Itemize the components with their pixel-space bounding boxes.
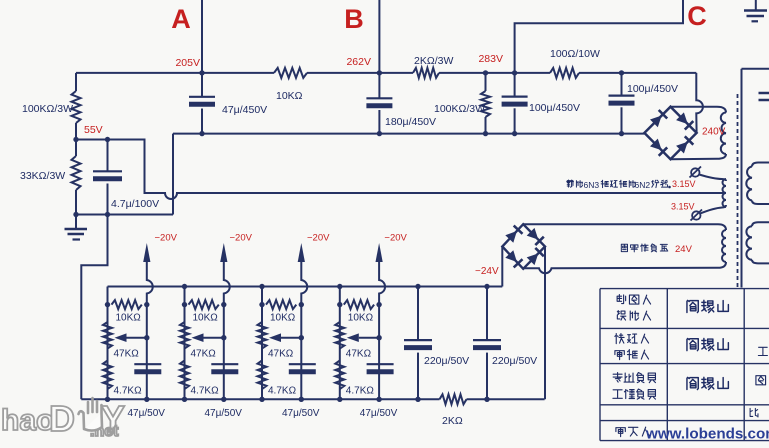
capacitor C4 100μ/450V bbox=[619, 70, 624, 75]
watermark haoDIY logo bbox=[1, 398, 125, 440]
svg-text:−20V: −20V bbox=[384, 233, 407, 244]
svg-text:4.7KΩ: 4.7KΩ bbox=[268, 386, 297, 397]
bias section 1 resistor 4.7KΩ bbox=[103, 361, 112, 390]
table row2 label jiaoduiren bbox=[615, 334, 624, 344]
bias section 3 -20V arrow bbox=[298, 243, 305, 262]
svg-text:100KΩ/3W: 100KΩ/3W bbox=[434, 103, 485, 115]
svg-text:205V: 205V bbox=[175, 57, 200, 69]
transformer 3.15V winding lower bbox=[723, 193, 727, 207]
svg-text:B: B bbox=[344, 4, 364, 34]
svg-text:47μ/450V: 47μ/450V bbox=[222, 104, 267, 116]
svg-text:47μ/50V: 47μ/50V bbox=[128, 408, 166, 419]
table row1 label shejiren bbox=[617, 311, 626, 321]
transformer primary winding lower bbox=[752, 222, 769, 226]
svg-text:100μ/450V: 100μ/450V bbox=[627, 83, 678, 95]
svg-text:47μ/50V: 47μ/50V bbox=[360, 408, 398, 419]
table row5 label shendingren bbox=[616, 428, 625, 437]
svg-text:10KΩ: 10KΩ bbox=[276, 90, 303, 102]
svg-text:6N2: 6N2 bbox=[635, 180, 651, 190]
diode BR2 left-bottom bbox=[505, 250, 517, 262]
bias section 1 resistor 10KΩ bbox=[112, 300, 142, 309]
ground symbol top right bbox=[755, 0, 757, 10]
svg-text:C: C bbox=[687, 1, 707, 31]
wire left ground rail bbox=[76, 214, 173, 216]
heater terminal T1 bbox=[691, 168, 699, 176]
svg-text:262V: 262V bbox=[346, 56, 371, 68]
table row2 name Yan Xishan bbox=[687, 338, 698, 350]
node C jog wire bbox=[515, 0, 683, 73]
wire BR2 bottom AC to 24V winding with hop bbox=[523, 262, 726, 273]
diode BR1 bottom-right bbox=[676, 142, 688, 154]
heater label qianji 6N3 6N2 dengsi bbox=[567, 180, 574, 187]
bias section 1 -20V arrow bbox=[143, 243, 150, 262]
bias section 1 capacitor 47μ/50V bbox=[134, 363, 161, 365]
svg-text:2KΩ/3W: 2KΩ/3W bbox=[414, 55, 453, 67]
svg-text:240V: 240V bbox=[702, 127, 726, 138]
resistor 100KΩ/3W left bleeder bbox=[75, 73, 77, 91]
wire 55V node to heater tap bbox=[76, 140, 726, 200]
diode BR2 top-right bbox=[527, 228, 539, 240]
svg-text:4.7KΩ: 4.7KΩ bbox=[346, 386, 375, 397]
bias section 3 capacitor 47μ/50V bbox=[289, 363, 316, 365]
capacitor C2 180μ/450V bbox=[377, 70, 382, 75]
table row3 name Yan Xishan bbox=[687, 377, 698, 389]
mains capacitor mark bbox=[759, 93, 769, 100]
svg-text:100μ/450V: 100μ/450V bbox=[529, 102, 580, 114]
table row1 name Yan Xishan bbox=[687, 300, 698, 312]
svg-text:4.7μ/100V: 4.7μ/100V bbox=[111, 198, 159, 210]
transformer 240V secondary winding bbox=[721, 113, 726, 155]
bias section 4 capacitor 47μ/50V bbox=[367, 363, 394, 365]
bias section 4 left vertical bbox=[339, 287, 341, 400]
svg-text:47μ/50V: 47μ/50V bbox=[205, 408, 243, 419]
svg-text:3.15V: 3.15V bbox=[672, 179, 696, 189]
transformer core dashed line bbox=[737, 94, 739, 289]
capacitor C1 47μ/450V bbox=[199, 70, 204, 75]
svg-text:2KΩ: 2KΩ bbox=[442, 415, 463, 427]
table row1 label zhitouren bbox=[617, 295, 626, 304]
wire BR2 top AC to 24V winding bbox=[523, 224, 726, 230]
svg-text:100KΩ/3W: 100KΩ/3W bbox=[22, 103, 73, 115]
transformer shield line bbox=[742, 69, 769, 288]
svg-text:10KΩ: 10KΩ bbox=[270, 313, 296, 324]
wire mid common rail bbox=[173, 133, 644, 135]
svg-text:6N3: 6N3 bbox=[584, 180, 600, 190]
svg-text:10KΩ: 10KΩ bbox=[193, 313, 219, 324]
node A tap wire bbox=[201, 0, 203, 73]
bias section 4 resistor 10KΩ bbox=[344, 300, 374, 309]
diode BR1 top-right bbox=[676, 112, 688, 124]
resistor 10KΩ bbox=[274, 68, 307, 78]
label guding shanfuya 24V bbox=[621, 244, 627, 251]
wire BR2 minus to -24V rail bbox=[501, 247, 503, 287]
svg-text:220μ/50V: 220μ/50V bbox=[492, 355, 537, 367]
svg-text:hao: hao bbox=[1, 404, 54, 437]
wire T2 to 3.15V winding bbox=[700, 205, 726, 214]
bias section 3 pot 47KΩ bbox=[258, 322, 267, 349]
diode BR2 bottom-right bbox=[527, 253, 539, 265]
svg-text:55V: 55V bbox=[84, 124, 103, 136]
bridge rectifier BR1 diamond bbox=[644, 107, 696, 160]
node B tap wire bbox=[378, 0, 380, 73]
table col3 bi bbox=[750, 408, 758, 417]
wire top B+ bus bbox=[76, 72, 696, 74]
transformer primary winding upper bbox=[752, 163, 769, 167]
svg-text:A: A bbox=[171, 4, 191, 34]
svg-text:100Ω/10W: 100Ω/10W bbox=[550, 48, 600, 60]
svg-text:283V: 283V bbox=[478, 53, 503, 65]
wire bus to bridge with hop bbox=[696, 73, 703, 133]
bias section 4 pot 47KΩ bbox=[335, 322, 344, 349]
wire -24V rail bbox=[108, 286, 503, 288]
svg-text:−20V: −20V bbox=[230, 233, 253, 244]
svg-text:−20V: −20V bbox=[155, 233, 178, 244]
svg-text:47KΩ: 47KΩ bbox=[346, 349, 372, 360]
ground symbol main bbox=[75, 215, 77, 229]
svg-text:24V: 24V bbox=[675, 244, 693, 255]
bias section 3 resistor 10KΩ bbox=[266, 300, 296, 309]
svg-text:D: D bbox=[49, 398, 75, 439]
table row3 label gongcheng fuze bbox=[613, 390, 622, 399]
table col3 gong bbox=[758, 347, 767, 355]
bias section 1 left vertical bbox=[107, 287, 109, 400]
resistor 100Ω/10W bbox=[550, 68, 579, 78]
node 55V bbox=[73, 137, 78, 142]
junction dot 4.7uF top bbox=[105, 137, 110, 142]
table row3 label zhuanye fuze bbox=[613, 373, 622, 383]
watermark hand glyph bbox=[79, 398, 103, 431]
table col3 tu bbox=[756, 376, 766, 385]
svg-text:47KΩ: 47KΩ bbox=[268, 349, 294, 360]
wire BR1 top AC to 240V winding bbox=[671, 107, 727, 113]
diode BR2 left-top bbox=[505, 231, 517, 243]
resistor 33KΩ/3W bbox=[75, 140, 77, 157]
svg-text:10KΩ: 10KΩ bbox=[348, 313, 374, 324]
transformer 24V winding bbox=[722, 230, 726, 262]
wire mid rail drop bbox=[172, 134, 174, 215]
title block table grid bbox=[600, 289, 769, 441]
svg-text:www.lobends.com: www.lobends.com bbox=[645, 426, 769, 443]
bias section 4 -20V arrow bbox=[376, 243, 383, 262]
wire T1 to 3.15V winding bbox=[699, 175, 726, 182]
svg-text:4.7KΩ: 4.7KΩ bbox=[114, 386, 143, 397]
capacitor C3 100μ/450V bbox=[512, 70, 517, 75]
resistor 100KΩ/3W shunt bbox=[483, 70, 488, 75]
wire ground rail to bottom rail link bbox=[81, 215, 107, 400]
bias section 2 -20V arrow bbox=[220, 243, 227, 262]
svg-text:47μ/50V: 47μ/50V bbox=[282, 408, 320, 419]
bias section 3 left vertical bbox=[261, 287, 263, 400]
capacitor 4.7μ/100V bbox=[107, 140, 109, 172]
diode BR1 left-top bbox=[650, 116, 662, 128]
bridge rectifier BR2 diamond bbox=[502, 224, 545, 269]
bias section 2 pot 47KΩ bbox=[180, 322, 189, 349]
bias section 2 capacitor 47μ/50V bbox=[211, 363, 238, 365]
bias section 1 pot 47KΩ bbox=[103, 322, 112, 349]
capacitor 220μ/50V first bbox=[415, 284, 420, 289]
resistor 2KΩ/3W bbox=[413, 68, 439, 78]
svg-text:220μ/50V: 220μ/50V bbox=[424, 355, 469, 367]
transformer 3.15V winding upper bbox=[723, 179, 727, 193]
heater terminal T2 bbox=[692, 211, 700, 219]
svg-text:4.7KΩ: 4.7KΩ bbox=[191, 386, 220, 397]
resistor 2KΩ bbox=[440, 394, 467, 404]
svg-text:−24V: −24V bbox=[475, 266, 499, 277]
bias section 4 resistor 4.7KΩ bbox=[335, 361, 344, 390]
bias section 2 resistor 4.7KΩ bbox=[180, 361, 189, 390]
bias section 2 left vertical bbox=[184, 287, 186, 400]
bias section 2 resistor 10KΩ bbox=[189, 300, 219, 309]
svg-text:33KΩ/3W: 33KΩ/3W bbox=[20, 170, 65, 182]
svg-text:−20V: −20V bbox=[307, 233, 330, 244]
svg-text:47KΩ: 47KΩ bbox=[191, 349, 217, 360]
wire bottom ground rail bbox=[81, 398, 544, 400]
svg-text:10KΩ: 10KΩ bbox=[116, 313, 142, 324]
capacitor 220μ/50V second bbox=[484, 284, 489, 289]
wire BR1 bottom AC to 240V winding bbox=[671, 154, 727, 159]
table row2 label shenheren bbox=[615, 351, 624, 360]
svg-text:3.15V: 3.15V bbox=[671, 202, 695, 212]
svg-text:47KΩ: 47KΩ bbox=[114, 349, 140, 360]
bias section 3 resistor 4.7KΩ bbox=[258, 361, 267, 390]
svg-text:180μ/450V: 180μ/450V bbox=[385, 116, 436, 128]
wire BR2 plus to ground rail bbox=[544, 247, 546, 400]
diode BR1 left-bottom bbox=[650, 139, 662, 151]
